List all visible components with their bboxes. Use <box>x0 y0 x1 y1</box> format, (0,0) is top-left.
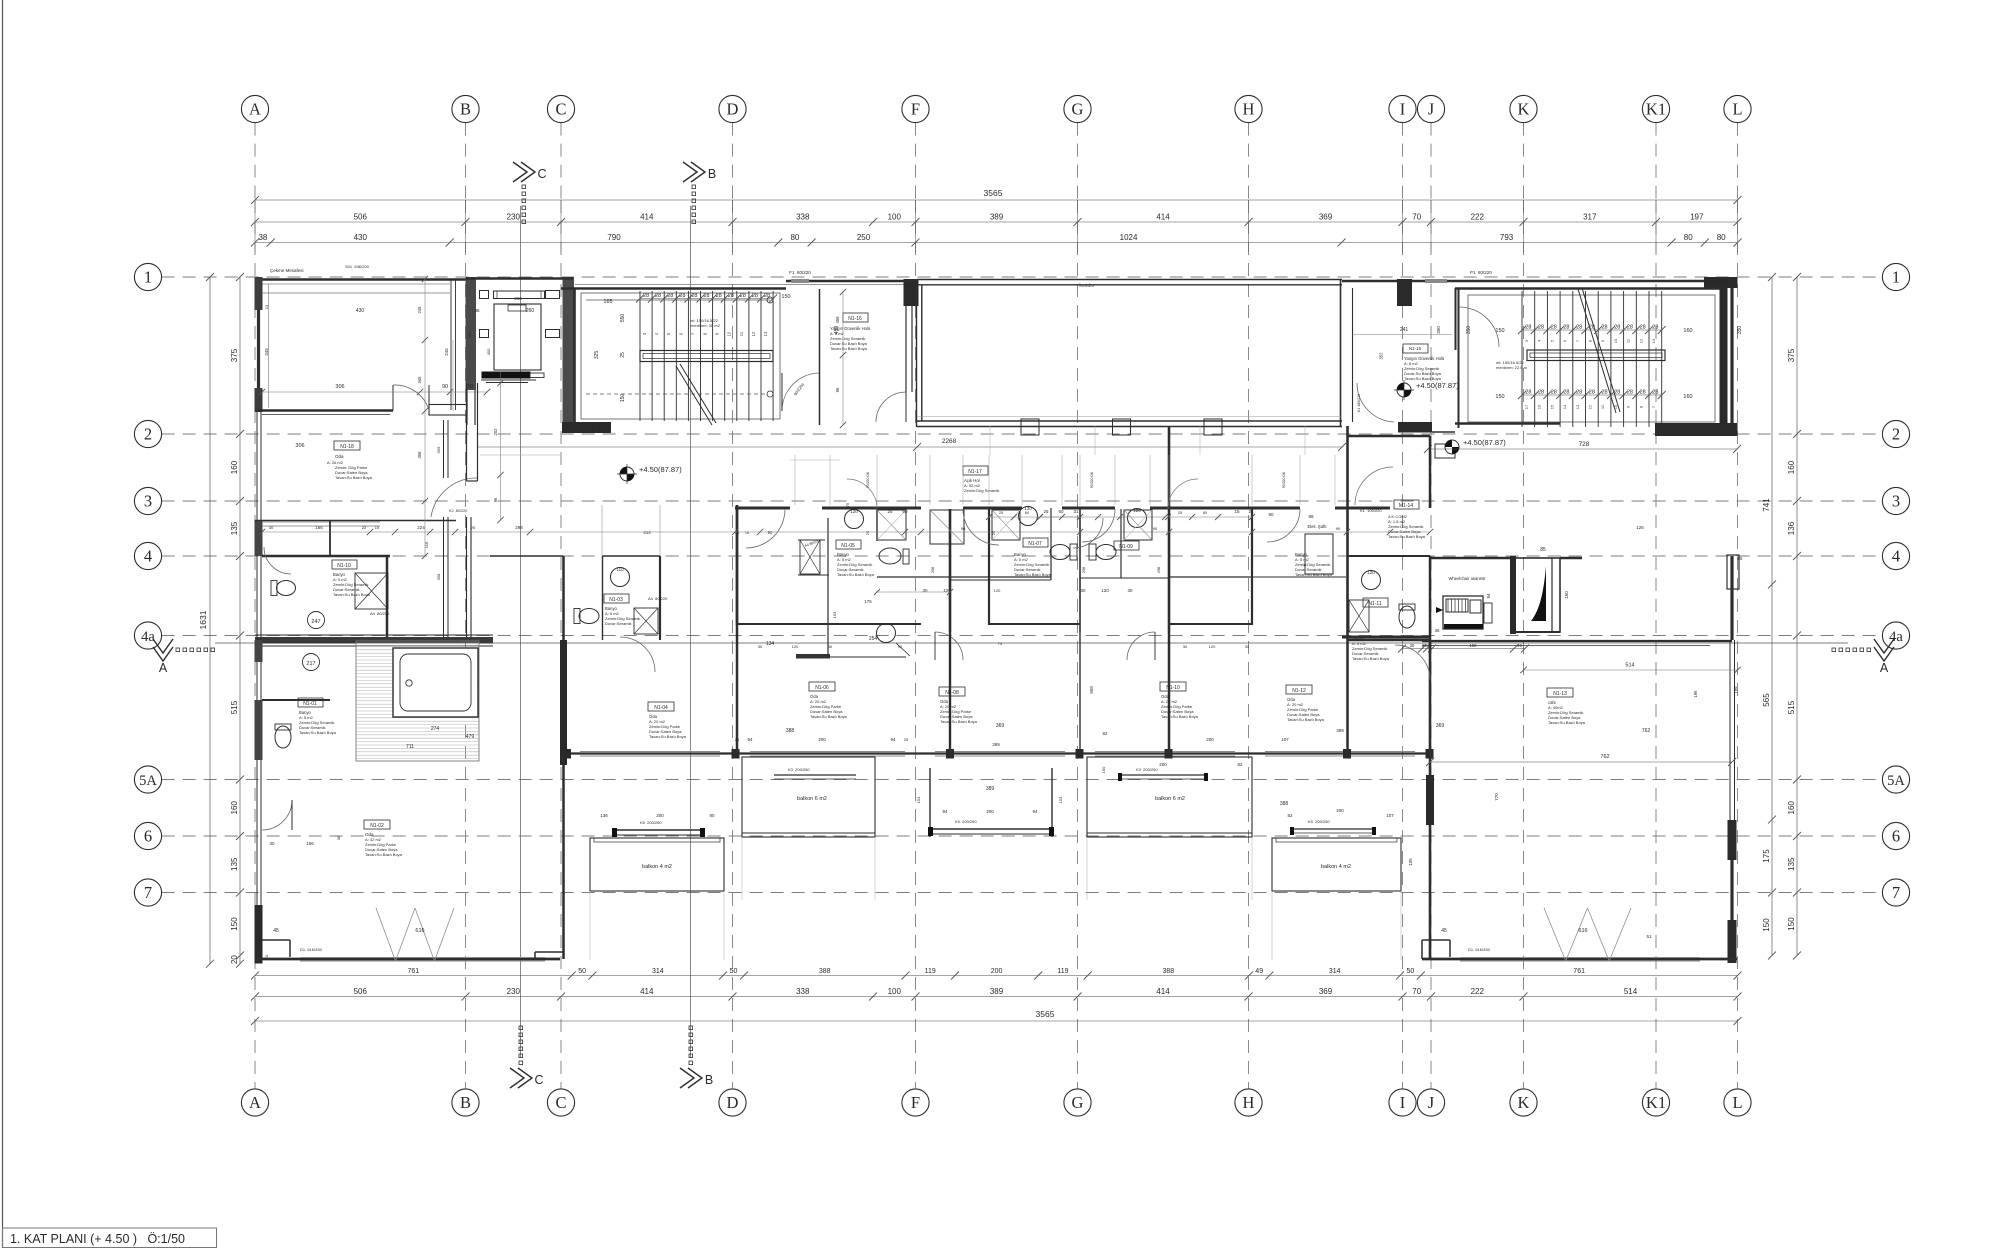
svg-text:150: 150 <box>230 917 239 931</box>
bottom extension lines <box>589 891 591 960</box>
N1-15 right wall <box>1455 288 1457 350</box>
grid line D (vertical dashed) <box>732 123 734 200</box>
section marker C top <box>513 162 535 182</box>
svg-text:1. KAT PLANI (+ 4.50 ) Ö:1/5: 1. KAT PLANI (+ 4.50 ) Ö:1/50 <box>10 1232 185 1246</box>
hall top wall <box>917 279 1342 281</box>
bath module wall x875 <box>876 508 878 541</box>
svg-text:13: 13 <box>1651 338 1656 343</box>
svg-text:28: 28 <box>1627 325 1633 331</box>
svg-text:28: 28 <box>1601 325 1607 331</box>
elevator shaft lower walls <box>466 390 468 425</box>
column bubble K1 top <box>1642 95 1669 122</box>
bath band mid walls <box>877 576 1051 578</box>
stair2 tread dims top <box>1522 329 1662 331</box>
column bubble I top <box>1389 95 1416 122</box>
svg-text:119: 119 <box>1057 968 1068 975</box>
lobby west wall <box>466 383 468 481</box>
N1-11 walls <box>1348 555 1431 557</box>
section line C <box>520 206 522 1058</box>
extension line col I <box>1402 200 1404 252</box>
N1-03 wardrobe <box>634 608 658 634</box>
svg-text:13: 13 <box>264 304 269 309</box>
svg-text:222: 222 <box>1471 987 1485 996</box>
svg-text:224: 224 <box>417 525 425 530</box>
svg-text:Tavan:Su Bazlı Boya: Tavan:Su Bazlı Boya <box>335 475 373 480</box>
svg-text:Tavan:Su Bazlı Boya: Tavan:Su Bazlı Boya <box>837 572 875 577</box>
svg-text:4a: 4a <box>141 629 155 645</box>
bath micro chain 2 <box>989 516 1080 518</box>
svg-text:414: 414 <box>1156 213 1170 222</box>
stair2 door arc top <box>1459 307 1499 347</box>
stair2 bottom-right block <box>1655 423 1738 436</box>
N1-03 module walls <box>602 556 604 640</box>
svg-text:388: 388 <box>1163 968 1175 975</box>
section line A-A <box>215 642 1848 644</box>
svg-text:A4 80/220: A4 80/220 <box>648 596 668 601</box>
row bubble 4 left <box>134 542 161 569</box>
svg-text:15: 15 <box>1234 509 1240 514</box>
stair1 treads <box>639 291 641 421</box>
svg-text:N1-12: N1-12 <box>1292 688 1306 694</box>
svg-text:N1-06: N1-06 <box>815 685 829 691</box>
row bubble 6 left <box>134 822 161 849</box>
svg-text:28: 28 <box>1652 390 1658 396</box>
N1-01 door arc <box>262 800 292 830</box>
svg-text:30: 30 <box>1410 643 1415 648</box>
svg-text:7: 7 <box>1892 883 1900 902</box>
svg-text:25: 25 <box>904 737 909 742</box>
stair2 left wall <box>1458 288 1460 428</box>
svg-text:80: 80 <box>1717 233 1726 242</box>
right room left wall column <box>1426 775 1434 825</box>
top outer wall left room inner lip <box>262 283 450 285</box>
svg-text:298: 298 <box>515 525 523 530</box>
section marker A right <box>1874 639 1894 661</box>
svg-text:15: 15 <box>375 525 380 530</box>
svg-text:K3 200/250: K3 200/250 <box>788 767 810 772</box>
svg-text:N1-09: N1-09 <box>1119 544 1133 550</box>
right outer wall upper <box>1730 288 1733 436</box>
column bubble B bottom <box>452 1089 479 1116</box>
svg-text:D: D <box>727 100 739 119</box>
row4a wall lip <box>255 641 460 643</box>
svg-text:5A: 5A <box>139 773 157 789</box>
svg-text:P1 80/220: P1 80/220 <box>1470 270 1492 275</box>
svg-text:325: 325 <box>594 351 600 360</box>
mid landing wall J <box>1398 422 1432 433</box>
column bubble G top <box>1064 95 1091 122</box>
svg-text:C: C <box>555 100 566 119</box>
svg-text:balkon 4 m2: balkon 4 m2 <box>642 864 672 870</box>
svg-text:298: 298 <box>1157 567 1161 573</box>
svg-text:balkon 6 m2: balkon 6 m2 <box>1155 796 1185 802</box>
left outer wall bottom column <box>255 905 263 964</box>
svg-text:merdiven: 30 m2: merdiven: 30 m2 <box>690 323 721 328</box>
bath toilet 3 <box>1096 545 1116 560</box>
column bubble C top <box>547 95 574 122</box>
svg-text:75: 75 <box>998 641 1003 646</box>
right outer wall lower2 <box>1730 820 1733 963</box>
right room left wall <box>1429 775 1432 959</box>
svg-text:merdiven: 22.5 m: merdiven: 22.5 m <box>1496 365 1528 370</box>
bath module wall x1346 <box>1346 426 1349 640</box>
svg-text:25: 25 <box>1043 509 1049 514</box>
svg-text:120: 120 <box>1101 588 1109 593</box>
elevator car <box>494 304 541 370</box>
svg-text:Tavan:Su Bazlı Boya: Tavan:Su Bazlı Boya <box>1014 572 1052 577</box>
svg-text:96: 96 <box>835 387 840 392</box>
svg-text:28: 28 <box>1627 390 1633 396</box>
svg-text:Tavan:Su Bazlı Boya: Tavan:Su Bazlı Boya <box>810 714 848 719</box>
svg-text:30: 30 <box>758 644 763 649</box>
svg-text:135: 135 <box>230 857 239 871</box>
svg-text:761: 761 <box>408 968 420 975</box>
grid line K (vertical dashed) <box>1523 123 1525 200</box>
bath micro chain 1 <box>1040 516 1165 518</box>
elevator2 shaft <box>1514 558 1560 632</box>
corridor south wall segments <box>735 507 790 510</box>
svg-text:L: L <box>1732 1093 1742 1112</box>
svg-text:7: 7 <box>144 883 152 902</box>
grid line 4 (horizontal dashed) <box>162 555 1883 557</box>
stair2 handrail <box>1527 350 1665 361</box>
M1-14 label box <box>1394 500 1419 509</box>
svg-text:150: 150 <box>1762 918 1771 932</box>
svg-text:49: 49 <box>1517 643 1522 648</box>
svg-text:150: 150 <box>1101 766 1106 773</box>
bath sink 1 <box>845 510 864 529</box>
wheelchair lift motor <box>1446 599 1468 612</box>
svg-text:J: J <box>1428 1093 1435 1112</box>
top overall dimension 3565 <box>255 199 1738 201</box>
stair1 left wall <box>573 288 576 423</box>
svg-text:414: 414 <box>1156 987 1170 996</box>
svg-text:30: 30 <box>269 525 274 530</box>
svg-text:28: 28 <box>716 293 722 299</box>
bath module wall x921 <box>949 509 952 632</box>
column bubble J top <box>1417 95 1444 122</box>
bath shower tray 4 <box>1124 510 1152 540</box>
svg-text:160: 160 <box>230 801 239 815</box>
N1-15 door arc <box>1357 383 1394 422</box>
grid line K1 (vertical dashed) <box>1655 123 1657 200</box>
N1-18 room label box <box>334 441 360 450</box>
svg-text:45: 45 <box>1441 928 1447 934</box>
svg-text:balkon 6 m2: balkon 6 m2 <box>797 796 827 802</box>
svg-text:Duvar:Seramik: Duvar:Seramik <box>605 621 631 626</box>
svg-text:250: 250 <box>857 233 871 242</box>
svg-text:38: 38 <box>258 233 267 242</box>
stair1 handrail <box>640 351 773 362</box>
left wing door arc N1-10 <box>264 547 291 574</box>
bath corridor arcs extra <box>847 479 877 509</box>
svg-text:126: 126 <box>1636 525 1644 530</box>
svg-text:197: 197 <box>1690 213 1704 222</box>
svg-text:Tavan:Su Bazlı Boya: Tavan:Su Bazlı Boya <box>299 730 337 735</box>
svg-text:Tavan:Su Bazlı Boya: Tavan:Su Bazlı Boya <box>1548 720 1586 725</box>
svg-text:11: 11 <box>739 331 744 336</box>
bath door arc into room2 <box>1127 632 1155 660</box>
svg-text:274: 274 <box>431 726 440 732</box>
svg-text:389: 389 <box>990 213 1004 222</box>
right outer wall lower <box>1730 556 1733 640</box>
N1-05 label box <box>836 540 861 549</box>
svg-text:N1-07: N1-07 <box>1028 541 1042 547</box>
svg-text:338: 338 <box>796 987 810 996</box>
svg-text:369: 369 <box>1436 723 1445 729</box>
svg-text:107: 107 <box>1386 813 1394 818</box>
left corridor door arc K2 <box>431 478 477 517</box>
svg-text:L: L <box>1732 100 1742 119</box>
N1-10 top wall <box>262 555 390 558</box>
M1-14 walls <box>1348 435 1431 438</box>
stair1 going line upper <box>586 299 770 301</box>
svg-text:616: 616 <box>1578 928 1587 934</box>
svg-text:350: 350 <box>1436 326 1441 334</box>
column bubble J bottom <box>1417 1089 1444 1116</box>
svg-text:338: 338 <box>796 213 810 222</box>
elevator2 wedge <box>1531 566 1546 621</box>
N1-16 column <box>904 279 919 306</box>
svg-text:90/220 DK: 90/220 DK <box>1090 471 1094 488</box>
bath module wall x828 <box>827 518 829 658</box>
bath micro chain 4 <box>877 591 950 593</box>
top dimension chain row3 <box>255 242 1738 244</box>
svg-text:90: 90 <box>442 384 448 390</box>
row4a wall right wing <box>1342 636 1430 639</box>
column bubble B top <box>452 95 479 122</box>
right room dim 762 <box>1430 761 1732 763</box>
svg-text:506: 506 <box>354 987 368 996</box>
room divider x1168 lower <box>1168 632 1171 753</box>
bath module wall x1168 <box>1168 426 1171 632</box>
svg-text:M1-14: M1-14 <box>1399 503 1413 509</box>
svg-text:10: 10 <box>1613 404 1618 409</box>
title box <box>3 1228 217 1248</box>
grid line I (vertical dashed) <box>1402 123 1404 200</box>
svg-text:16: 16 <box>1537 404 1542 409</box>
left outer wall lower window <box>256 556 258 905</box>
left room bottom wall <box>255 958 560 961</box>
svg-text:96: 96 <box>493 497 498 502</box>
svg-text:Tavan:Su Bazlı Boya: Tavan:Su Bazlı Boya <box>1404 376 1442 381</box>
svg-text:156: 156 <box>306 841 314 846</box>
svg-text:20: 20 <box>230 955 239 964</box>
svg-text:45: 45 <box>1434 628 1440 633</box>
hall bottom column tick 2 <box>1113 419 1131 435</box>
column bubble K bottom <box>1510 1089 1537 1116</box>
svg-text:120: 120 <box>850 509 858 514</box>
svg-text:247: 247 <box>311 619 320 625</box>
stair1 tread dims top <box>640 298 773 300</box>
N1-10 right wall <box>386 556 389 640</box>
N1-08 room label <box>939 687 965 696</box>
svg-text:134: 134 <box>766 641 775 647</box>
svg-text:120: 120 <box>1367 570 1375 575</box>
N1-10 label box <box>332 560 357 569</box>
mid door arc row4a <box>620 637 655 672</box>
svg-text:A: A <box>249 100 261 119</box>
top wall stair1-to-hall <box>786 280 917 282</box>
svg-text:222: 222 <box>1471 213 1485 222</box>
room door arc J <box>1395 645 1430 680</box>
svg-text:150: 150 <box>1495 394 1504 400</box>
column bubble G bottom <box>1064 1089 1091 1116</box>
svg-text:N1-02: N1-02 <box>370 823 384 829</box>
N1-01 toilet <box>275 726 291 748</box>
svg-text:150: 150 <box>1564 591 1569 599</box>
svg-text:25: 25 <box>471 525 476 530</box>
extension line col B <box>465 200 467 252</box>
svg-text:120: 120 <box>792 644 799 649</box>
svg-text:30: 30 <box>1183 644 1188 649</box>
extension line col A <box>254 200 256 252</box>
svg-text:430: 430 <box>356 308 365 314</box>
svg-text:10: 10 <box>1613 338 1618 343</box>
svg-text:Tavan:Su Bazlı Boya: Tavan:Su Bazlı Boya <box>1352 656 1390 661</box>
svg-text:2268: 2268 <box>942 438 957 445</box>
N1-10b room label <box>1160 682 1186 691</box>
left window sill room2 <box>262 521 380 523</box>
N1-13 room label <box>1547 688 1573 697</box>
svg-text:90: 90 <box>1153 526 1158 531</box>
svg-text:D1 616/330: D1 616/330 <box>1468 947 1491 952</box>
svg-text:Wheelchair asansör: Wheelchair asansör <box>1448 576 1486 581</box>
svg-text:245: 245 <box>444 348 449 356</box>
row bubble 2 left <box>134 420 161 447</box>
rooms bottom wall <box>567 752 1430 754</box>
svg-text:515: 515 <box>1787 700 1796 714</box>
svg-text:1: 1 <box>1892 268 1900 287</box>
svg-text:770: 770 <box>1494 793 1499 801</box>
svg-text:28: 28 <box>1563 390 1569 396</box>
svg-text:K: K <box>1518 1093 1530 1112</box>
svg-text:50: 50 <box>1407 968 1415 975</box>
svg-text:94: 94 <box>890 737 896 742</box>
level marker row2 right <box>1445 440 1459 454</box>
balcony 6A rail <box>774 774 856 776</box>
svg-text:B: B <box>460 100 471 119</box>
svg-text:60: 60 <box>1058 509 1064 514</box>
svg-text:306: 306 <box>295 443 304 449</box>
svg-text:399: 399 <box>992 742 1000 747</box>
svg-text:C: C <box>534 1073 543 1087</box>
row bubble 3 left <box>134 487 161 514</box>
row bubble 5A right <box>1882 766 1909 793</box>
balkon 6m2 B box <box>1087 757 1252 837</box>
guide texture lines <box>452 340 454 411</box>
balcony B side walls <box>929 768 931 837</box>
svg-text:345: 345 <box>417 376 422 384</box>
svg-text:414: 414 <box>643 530 651 535</box>
hall left wall <box>916 280 918 427</box>
svg-text:241: 241 <box>1400 327 1409 333</box>
N1-09 label box <box>1114 541 1139 550</box>
svg-text:94: 94 <box>942 809 948 814</box>
svg-text:28: 28 <box>764 293 770 299</box>
room divider x1080 lower <box>1079 632 1081 753</box>
svg-text:30: 30 <box>1245 644 1250 649</box>
svg-text:N1-05: N1-05 <box>841 543 855 549</box>
elevator door sill black bar <box>482 372 531 379</box>
svg-text:4: 4 <box>1892 547 1900 566</box>
column bubble H top <box>1235 95 1262 122</box>
column bubble I bottom <box>1389 1089 1416 1116</box>
svg-text:70: 70 <box>1412 987 1421 996</box>
row bubble 5A left <box>134 766 161 793</box>
extension line col D <box>732 200 734 252</box>
svg-text:N1-11: N1-11 <box>1368 601 1381 607</box>
svg-text:I: I <box>1400 100 1406 119</box>
svg-text:793: 793 <box>1500 233 1514 242</box>
left bottom step <box>262 939 290 941</box>
grid line F (vertical dashed) <box>915 123 917 200</box>
interior vchain x843 <box>842 292 844 425</box>
column bubble L top <box>1724 95 1751 122</box>
corridor extension lines <box>794 455 796 505</box>
svg-text:60: 60 <box>1025 511 1029 515</box>
svg-text:94: 94 <box>1486 593 1491 599</box>
svg-text:90/220 DK: 90/220 DK <box>866 471 870 488</box>
svg-text:711: 711 <box>406 744 414 750</box>
svg-text:90: 90 <box>898 644 903 649</box>
extension line col H <box>1248 200 1250 252</box>
svg-text:200: 200 <box>986 809 994 814</box>
stair2 diagonal cut <box>1578 289 1616 413</box>
extension line col L <box>1737 200 1739 252</box>
top-right outer column <box>1704 277 1738 288</box>
right wing upper divider <box>1581 557 1583 559</box>
left room door leaf <box>392 385 394 411</box>
grid line 5A (horizontal dashed) <box>162 779 1883 781</box>
svg-text:16: 16 <box>745 531 749 535</box>
N1-16 label box <box>843 313 868 322</box>
svg-text:28: 28 <box>728 293 734 299</box>
svg-text:13: 13 <box>763 331 768 336</box>
svg-text:30: 30 <box>828 644 833 649</box>
svg-text:135: 135 <box>1408 858 1413 866</box>
corridor dim 728 <box>1428 448 1737 450</box>
mid-right window stub <box>1727 555 1739 589</box>
room divider x921 lower <box>949 632 951 753</box>
N1-05 wardrobe <box>800 540 820 574</box>
left dimension chain inner <box>239 277 241 964</box>
balcony 6B rail <box>1122 774 1204 776</box>
right room bottom window <box>1460 957 1700 959</box>
row bubble 1 left <box>134 263 161 290</box>
grid line H (vertical dashed) <box>1248 123 1250 200</box>
left wing divider wall <box>560 640 567 765</box>
page left border <box>2 0 4 1248</box>
stair1 going line lower <box>586 393 766 395</box>
column bubble F bottom <box>902 1089 929 1116</box>
grid line J (vertical dashed) <box>1430 123 1432 200</box>
svg-text:352: 352 <box>1379 352 1384 360</box>
svg-text:230: 230 <box>507 987 521 996</box>
svg-text:60: 60 <box>1203 511 1207 515</box>
svg-text:414: 414 <box>640 213 654 222</box>
svg-text:28: 28 <box>1614 390 1620 396</box>
svg-text:388: 388 <box>1280 801 1289 807</box>
svg-text:28: 28 <box>679 293 685 299</box>
svg-text:2: 2 <box>144 425 152 444</box>
svg-text:A: A <box>249 1093 261 1112</box>
svg-text:N1-01: N1-01 <box>303 701 317 707</box>
svg-text:28: 28 <box>703 293 709 299</box>
top wall I-L <box>1342 280 1737 282</box>
elevator car inset <box>508 305 526 311</box>
wheelchair lift machine frame <box>1443 596 1483 629</box>
